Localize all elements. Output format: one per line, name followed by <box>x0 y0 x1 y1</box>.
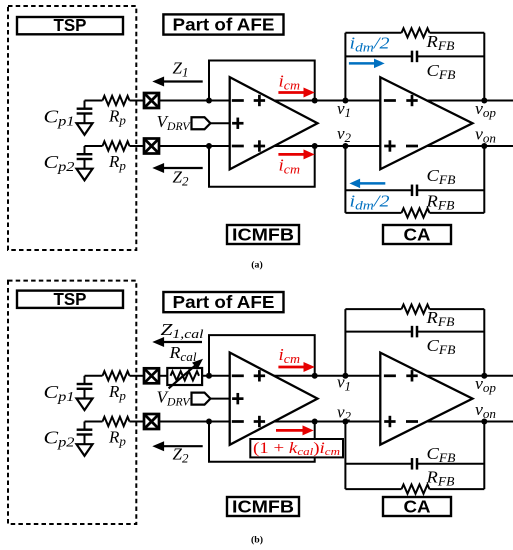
ground symbol (line 2, b) <box>77 444 93 456</box>
wire node v1 (b) <box>274 375 380 377</box>
resistor RFB top (b) <box>345 308 401 310</box>
resistor RFB bottom (b) <box>345 488 401 490</box>
junction dots top loop (a) <box>206 98 212 104</box>
TSP dashed enclosure (b) <box>8 281 136 524</box>
TSP label box (a) <box>17 17 123 34</box>
impedance arrow Z2 (a) <box>162 167 203 169</box>
svg-text:CA: CA <box>404 224 431 244</box>
TSP dashed enclosure (a) <box>8 6 136 250</box>
svg-text:TSP: TSP <box>54 15 87 35</box>
electrode contact (crossed box, line 2, a) <box>144 139 159 154</box>
current icm bottom (a) <box>278 153 306 156</box>
wire output von (a) <box>427 145 513 147</box>
wire node v2 (a) <box>274 145 380 147</box>
ICMFB bottom feedback loop (a) <box>209 146 315 187</box>
ICMFB top feedback loop (b) <box>209 335 315 376</box>
wire: TSP sense line 1 (a) <box>85 100 103 102</box>
impedance arrow Z2 (b) <box>162 445 203 447</box>
impedance arrow Z1,cal (b) <box>162 341 202 343</box>
wire to ICMFB -in (b) <box>159 421 230 423</box>
wire node v2 (b) <box>274 421 380 423</box>
capacitor CFB bottom (b) <box>345 463 412 465</box>
op-amp CA (a) <box>380 77 472 169</box>
svg-text:(b): (b) <box>251 534 263 545</box>
wire to ICMFB +in (a) <box>159 100 230 102</box>
current (1+kcal)icm bottom (b) <box>276 429 305 432</box>
op-amp ICMFB (b) <box>230 353 318 445</box>
svg-text:ICMFB: ICMFB <box>232 496 294 516</box>
capacitor Cp1 (b) <box>84 376 86 384</box>
capacitor CFB top (a) <box>345 55 412 57</box>
CA bottom feedback verticals (a) <box>344 146 346 213</box>
CA input polarity marks (a) <box>384 99 396 102</box>
capacitor Cp2 (a) <box>84 146 86 154</box>
resistor Rp (line 1, a) <box>103 96 130 105</box>
junction dots top loop (b) <box>206 373 212 379</box>
CA bottom feedback verticals (b) <box>344 422 346 490</box>
op-amp CA (b) <box>380 353 472 445</box>
svg-text:Part of AFE: Part of AFE <box>173 15 275 35</box>
junction dots bottom loop (b) <box>206 419 212 425</box>
wire: TSP sense line 2 (a) <box>85 145 103 147</box>
svg-text:Part of AFE: Part of AFE <box>173 292 275 312</box>
wire node v1 (a) <box>274 100 380 102</box>
junction dots bottom loop (a) <box>206 143 212 149</box>
wire output vop (a) <box>427 100 513 102</box>
wire: TSP sense line 2 (b) <box>85 421 103 423</box>
ICMFB input polarity marks (b) <box>232 374 244 377</box>
electrode contact (crossed box, line 1, a) <box>144 93 159 108</box>
wire to ICMFB +in (b) <box>202 375 230 377</box>
calibration resistor Rcal (b) <box>159 375 167 377</box>
VDRV input flag (b) <box>192 393 211 405</box>
wire to ICMFB -in (a) <box>159 145 230 147</box>
CA input polarity marks (b) <box>384 374 396 377</box>
resistor Rp (line 2, b) <box>103 417 130 426</box>
CA top feedback verticals (a) <box>344 33 346 101</box>
current icm top (b) <box>278 366 306 369</box>
ICMFB bottom feedback loop (b) <box>209 422 315 462</box>
ICMFB input polarity marks (a) <box>232 99 244 102</box>
ground symbol (line 1, a) <box>77 123 93 135</box>
current idm/2 bottom (blue, a) <box>358 182 386 185</box>
TSP label box (b) <box>17 291 123 308</box>
CA label box (a) <box>383 225 451 244</box>
ground symbol (line 1, b) <box>77 399 93 411</box>
op-amp ICMFB (a) <box>230 77 318 169</box>
ground symbol (line 2, a) <box>77 169 93 181</box>
resistor RFB top (a) <box>345 32 401 34</box>
CA label box (b) <box>383 497 451 516</box>
VDRV input flag (a) <box>192 117 211 129</box>
svg-text:TSP: TSP <box>54 289 87 309</box>
Part of AFE label box (b) <box>163 292 283 312</box>
electrode contact (crossed box, line 2, b) <box>144 414 159 429</box>
current icm top (a) <box>278 91 306 94</box>
resistor Rp (line 2, a) <box>103 141 130 150</box>
wire: TSP sense line 1 (b) <box>85 375 103 377</box>
ICMFB label box (b) <box>227 497 299 516</box>
svg-text:(a): (a) <box>251 259 262 270</box>
resistor RFB bottom (a) <box>345 212 401 214</box>
wire output vop (b) <box>427 375 513 377</box>
ICMFB label box (a) <box>227 225 299 244</box>
capacitor Cp1 (a) <box>84 101 86 109</box>
impedance arrow Z1 (a) <box>162 80 203 82</box>
Part of AFE label box (a) <box>163 14 283 34</box>
capacitor Cp2 (b) <box>84 422 86 430</box>
wire output von (b) <box>427 421 513 423</box>
resistor Rp (line 1, b) <box>103 371 130 380</box>
svg-text:CA: CA <box>404 496 431 516</box>
svg-text:ICMFB: ICMFB <box>232 224 294 244</box>
ICMFB top feedback loop (a) <box>209 61 315 101</box>
capacitor CFB bottom (a) <box>345 189 412 191</box>
CA top feedback verticals (b) <box>344 309 346 376</box>
capacitor CFB top (b) <box>345 331 412 333</box>
electrode contact (crossed box, line 1, b) <box>144 368 159 383</box>
